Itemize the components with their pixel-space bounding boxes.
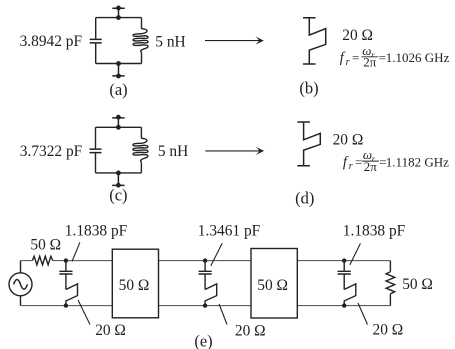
transmission-line stub (b)	[303, 18, 326, 64]
wire source to rail	[20, 261, 22, 306]
svg-text:20 Ω: 20 Ω	[373, 322, 404, 339]
source resistor Rs	[32, 256, 53, 265]
load resistor RL	[386, 261, 395, 306]
node dot n3 bottom	[342, 303, 346, 307]
node dot n3 top	[342, 258, 346, 262]
transmission line box TL1 50 Ohm	[112, 249, 158, 318]
capacitor C1	[90, 39, 102, 43]
terminal dot bottom (a)	[116, 74, 121, 79]
shunt stub S1 20 Ohm	[66, 284, 78, 306]
shunt capacitor C4	[199, 261, 212, 290]
pointer line to S1 label	[78, 300, 90, 325]
node dot n1 bottom	[64, 303, 68, 307]
svg-text:r: r	[346, 57, 350, 68]
svg-text:50 Ω: 50 Ω	[119, 277, 150, 294]
inductor L2	[133, 138, 148, 163]
capacitor C2	[90, 149, 102, 153]
arrow a to b	[205, 37, 264, 45]
top terminal (c)	[112, 118, 124, 127]
svg-text:(a): (a)	[109, 80, 127, 99]
shunt capacitor C3	[59, 261, 72, 290]
svg-text:50 Ω: 50 Ω	[257, 277, 288, 294]
svg-text:(d): (d)	[295, 188, 314, 207]
svg-text:1.1026 GHz: 1.1026 GHz	[386, 50, 450, 65]
svg-text:3.8942 pF: 3.8942 pF	[20, 33, 82, 50]
fraction bar (b)	[362, 56, 379, 58]
pointer line to C5 label	[350, 244, 361, 265]
inductor L1	[133, 29, 148, 54]
svg-text:=: =	[355, 154, 362, 169]
resonant frequency formula (d)	[343, 147, 449, 174]
svg-text:50 Ω: 50 Ω	[30, 237, 61, 254]
svg-text:r: r	[349, 161, 353, 172]
pointer line to C3 label	[72, 242, 80, 261]
svg-text:1.1182 GHz: 1.1182 GHz	[386, 154, 449, 169]
svg-text:20 Ω: 20 Ω	[342, 27, 373, 44]
transmission-line stub (d)	[297, 122, 320, 166]
node dot n1 top	[64, 258, 68, 262]
arrow c to d	[205, 147, 264, 155]
svg-text:=: =	[352, 50, 359, 65]
shunt capacitor C5	[338, 261, 351, 290]
svg-text:1.1838 pF: 1.1838 pF	[65, 223, 127, 240]
svg-text:(c): (c)	[109, 185, 127, 204]
svg-text:5 nH: 5 nH	[158, 143, 188, 160]
node dot n2 top	[203, 258, 207, 262]
pointer line to S3 label	[358, 303, 368, 325]
terminal dot top (c)	[116, 115, 121, 120]
node dot top (c)	[116, 125, 121, 130]
node dot n2 bottom	[203, 303, 207, 307]
terminal dot top (a)	[116, 6, 121, 11]
svg-text:1.1838 pF: 1.1838 pF	[343, 223, 405, 240]
svg-text:(b): (b)	[299, 79, 318, 98]
svg-text:50 Ω: 50 Ω	[402, 276, 433, 293]
bottom terminal (c)	[112, 173, 124, 186]
top terminal (a)	[112, 8, 124, 17]
svg-text:3.7322 pF: 3.7322 pF	[20, 143, 82, 160]
svg-text:20 Ω: 20 Ω	[235, 322, 266, 339]
ac source	[9, 273, 32, 296]
pointer line to S2 label	[219, 304, 227, 325]
terminal dot bottom (c)	[116, 183, 121, 188]
wire loop (a)	[96, 18, 142, 64]
fraction bar (d)	[362, 160, 379, 162]
svg-text:5 nH: 5 nH	[155, 33, 185, 50]
svg-text:20 Ω: 20 Ω	[95, 322, 126, 339]
wire loop (c)	[96, 127, 142, 173]
node dot bottom (a)	[116, 61, 121, 66]
pointer line to C4 label	[211, 243, 222, 266]
node dot top (a)	[116, 15, 121, 20]
resonant frequency formula (b)	[340, 43, 450, 70]
svg-text:(e): (e)	[194, 331, 212, 349]
node dot bottom (c)	[116, 171, 121, 176]
bottom terminal (a)	[112, 64, 124, 76]
shunt stub S2 20 Ohm	[205, 284, 217, 306]
svg-text:20 Ω: 20 Ω	[333, 131, 364, 148]
svg-text:1.3461 pF: 1.3461 pF	[198, 223, 260, 240]
bottom rail	[21, 305, 391, 307]
top rail	[21, 260, 391, 262]
transmission line box TL2 50 Ohm	[251, 249, 297, 319]
shunt stub S3 20 Ohm	[344, 284, 356, 306]
